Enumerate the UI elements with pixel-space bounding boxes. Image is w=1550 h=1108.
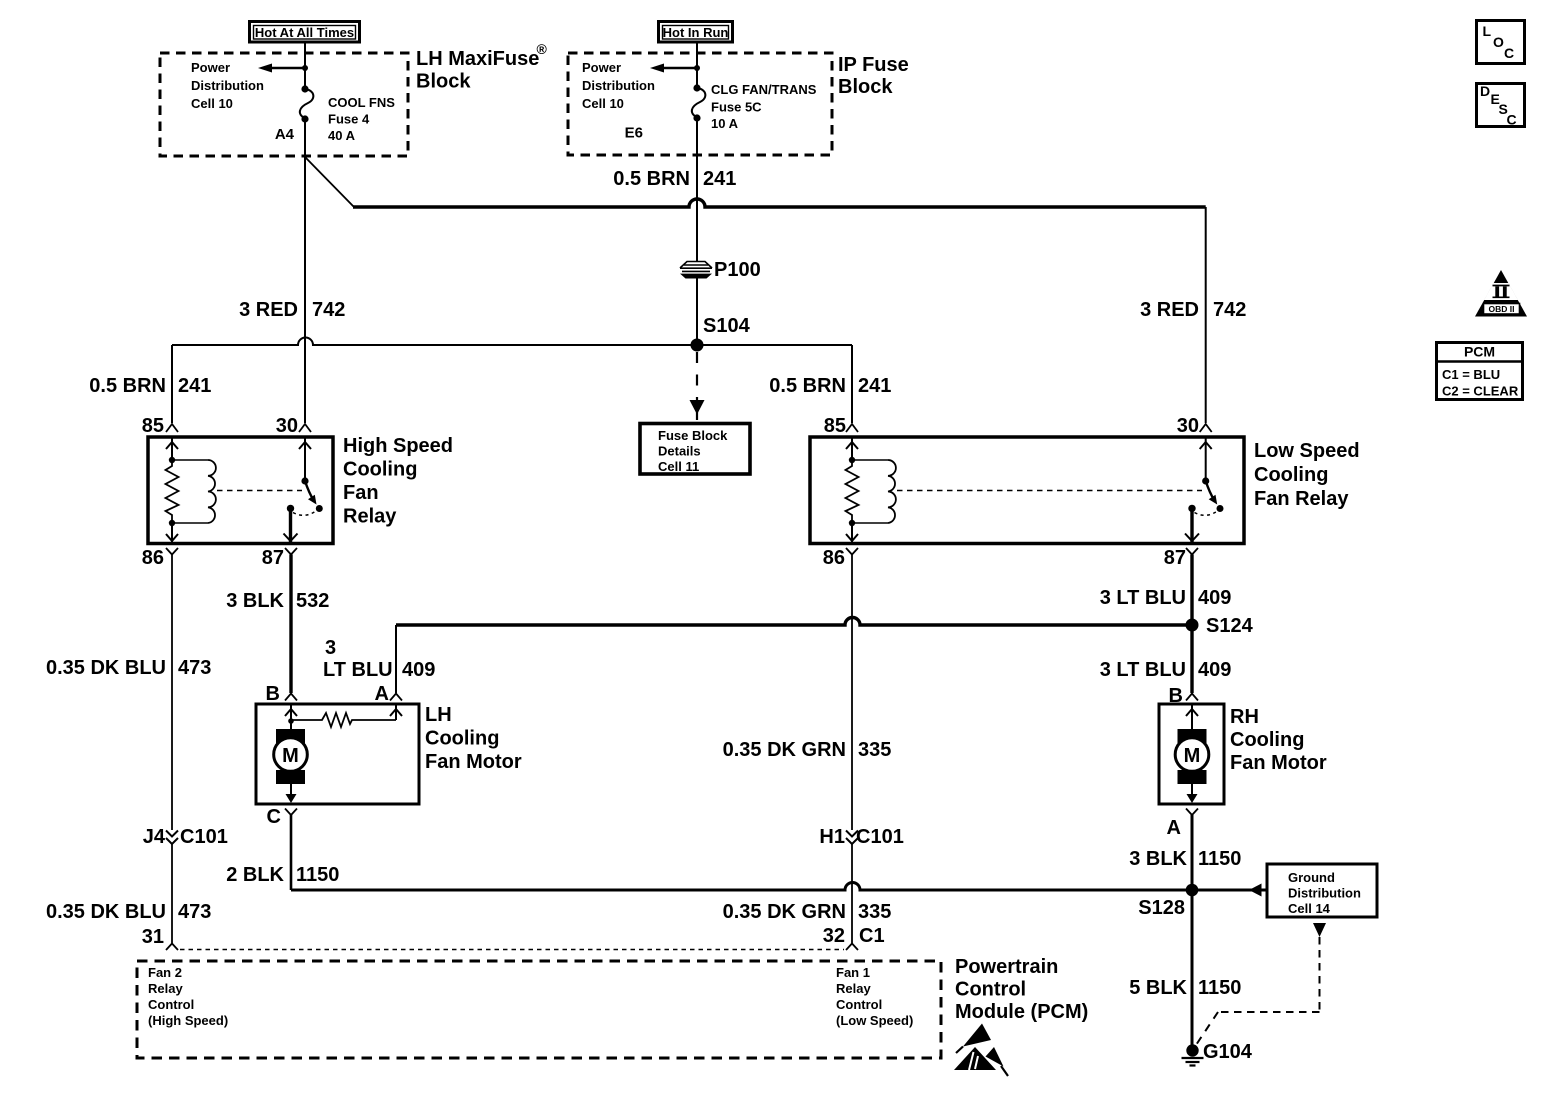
svg-text:86: 86 [823, 547, 845, 569]
svg-text:3 LT BLU: 3 LT BLU [1100, 587, 1186, 609]
svg-text:(Low Speed): (Low Speed) [836, 1013, 913, 1028]
svg-text:Fan 1: Fan 1 [836, 965, 870, 980]
svg-text:RH: RH [1230, 706, 1259, 728]
svg-text:LT BLU: LT BLU [323, 659, 393, 681]
svg-text:S128: S128 [1138, 897, 1185, 919]
wire from Hot At All Times into LH block [304, 42, 306, 88]
svg-text:Control: Control [836, 997, 882, 1012]
svg-text:C1: C1 [859, 925, 885, 947]
svg-text:Relay: Relay [343, 506, 397, 528]
LOC reference box [1477, 21, 1525, 64]
Ground Distribution Cell 14 reference box [1267, 864, 1377, 917]
svg-text:Cell 10: Cell 10 [582, 96, 624, 111]
RH fan motor M symbol [1175, 729, 1209, 784]
PCM connector C1 dashed face line [180, 949, 844, 951]
svg-text:Cooling: Cooling [343, 459, 417, 481]
svg-text:31: 31 [142, 926, 164, 948]
svg-text:Details: Details [658, 444, 701, 459]
horizontal 3 LT BLU 409 wire with hop over DK GRN wire [396, 618, 1192, 626]
svg-text:32: 32 [823, 925, 845, 947]
ground G104 symbol [1182, 1041, 1253, 1066]
wire label 0.35 DK BLU 473 (lower) [46, 901, 211, 923]
wire label 0.35 DK GRN 335 (upper) [723, 739, 892, 761]
svg-text:86: 86 [142, 547, 164, 569]
svg-text:30: 30 [276, 415, 298, 437]
HS relay resistor [166, 460, 179, 523]
pin 87 label and connector (HS relay) [262, 547, 297, 569]
svg-text:C1 = BLU: C1 = BLU [1442, 367, 1500, 382]
pin C label and connector (LH motor) [267, 806, 297, 828]
HS relay coil [172, 460, 216, 523]
wire label 3 LT BLU 409 (above S124) [1100, 587, 1232, 609]
svg-text:Fan Relay: Fan Relay [1254, 488, 1349, 510]
svg-text:Block: Block [416, 71, 471, 93]
LS relay resistor [846, 460, 859, 523]
svg-text:Cell 10: Cell 10 [191, 96, 233, 111]
svg-text:A4: A4 [275, 126, 295, 143]
wire label 0.5 BRN 241 [613, 168, 736, 190]
wire RH motor A down to S128 (3 BLK 1150) [1191, 815, 1194, 890]
svg-text:0.35 DK BLU: 0.35 DK BLU [46, 657, 166, 679]
Hot At All Times flag box [250, 22, 360, 43]
ESD sensitive device symbol [954, 1024, 1008, 1077]
svg-text:87: 87 [1164, 547, 1186, 569]
svg-text:O: O [1493, 34, 1504, 50]
svg-text:Power: Power [582, 60, 621, 75]
svg-text:Module (PCM): Module (PCM) [955, 1001, 1088, 1023]
svg-text:532: 532 [296, 590, 329, 612]
svg-text:CLG FAN/TRANS: CLG FAN/TRANS [711, 82, 817, 97]
splice S124 [1186, 615, 1254, 637]
svg-text:S124: S124 [1206, 615, 1254, 637]
svg-text:Relay: Relay [836, 981, 871, 996]
svg-text:Fan Motor: Fan Motor [425, 751, 522, 773]
HS relay switch pin 30 entry arrow and pivot [299, 437, 311, 485]
LS relay switch pin 30 entry arrow and pivot [1200, 437, 1212, 485]
svg-text:High Speed: High Speed [343, 435, 453, 457]
svg-text:D: D [1480, 83, 1490, 99]
svg-text:5 BLK: 5 BLK [1129, 977, 1187, 999]
HS relay coil pin 85 entry arrow [166, 437, 178, 463]
svg-text:C: C [1507, 112, 1517, 128]
wire label 3 BLK 532 [226, 590, 329, 612]
wire from Hot In Run into IP block [696, 42, 698, 87]
pin B label and connector (LH motor) [266, 683, 297, 705]
svg-text:C: C [267, 806, 281, 828]
svg-text:Power: Power [191, 60, 230, 75]
svg-text:3 LT BLU: 3 LT BLU [1100, 659, 1186, 681]
pin 31 label and connector (PCM) [142, 926, 178, 950]
svg-text:3 RED: 3 RED [1140, 299, 1199, 321]
svg-text:Control: Control [955, 979, 1026, 1001]
wire S128 to Ground Distribution box with arrow [1192, 884, 1267, 897]
svg-text:0.5 BRN: 0.5 BRN [613, 168, 690, 190]
LH motor box [256, 704, 419, 804]
svg-text:241: 241 [178, 375, 211, 397]
svg-text:Hot At All Times: Hot At All Times [255, 25, 354, 40]
svg-text:Cooling: Cooling [1230, 729, 1304, 751]
svg-text:409: 409 [1198, 587, 1231, 609]
svg-text:10 A: 10 A [711, 116, 739, 131]
relay K-LS box [810, 437, 1244, 544]
in-line connector C101 cavity J4 [143, 826, 228, 848]
svg-text:473: 473 [178, 657, 211, 679]
splice S104 [691, 315, 751, 352]
wire label 0.5 BRN 241 (right) [769, 375, 891, 397]
svg-text:(High Speed): (High Speed) [148, 1013, 228, 1028]
HS relay switch fixed contact to pin 87 [284, 505, 298, 543]
DESC reference box [1477, 83, 1525, 128]
RH motor exit arrow to pin A [1187, 781, 1198, 803]
svg-text:0.35 DK GRN: 0.35 DK GRN [723, 901, 846, 923]
relay K-HS label [343, 435, 453, 528]
svg-text:30: 30 [1177, 415, 1199, 437]
wire LH motor C down to ground run [290, 815, 293, 890]
wire H1 to PCM pin 32 lower segment [851, 844, 853, 943]
svg-text:Hot In Run: Hot In Run [663, 25, 729, 40]
HS relay contact travel dashed arc [293, 511, 317, 516]
svg-text:1150: 1150 [1198, 977, 1241, 999]
svg-text:1150: 1150 [1198, 848, 1241, 870]
svg-text:Cooling: Cooling [425, 728, 499, 750]
pin 86 label and connector (HS relay) [142, 547, 178, 569]
LS relay coil pin 85 entry arrow [846, 437, 858, 463]
svg-text:B: B [266, 683, 280, 705]
svg-text:J4: J4 [143, 826, 166, 848]
svg-text:40 A: 40 A [328, 128, 356, 143]
svg-text:H1: H1 [819, 826, 845, 848]
small text Power Distribution Cell 10 (IP block) [582, 60, 655, 111]
pin 85 label and connector (LS relay) [824, 415, 858, 437]
wire label 0.35 DK GRN 335 (lower) [723, 901, 892, 923]
svg-text:241: 241 [858, 375, 891, 397]
connector P100 grommet symbol [680, 262, 712, 279]
dashed reference arrow from S104 [690, 352, 705, 420]
svg-text:409: 409 [402, 659, 435, 681]
svg-text:87: 87 [262, 547, 284, 569]
svg-text:Cooling: Cooling [1254, 464, 1328, 486]
right vertical 3 RED wire down to LS relay pin 30 [1205, 207, 1207, 423]
wire E6 down through P100 to S104 [696, 118, 698, 261]
svg-text:Fan: Fan [343, 482, 379, 504]
LH motor B entry arrow [285, 704, 297, 724]
PCM connector legend box [1437, 343, 1523, 400]
svg-text:IP Fuse: IP Fuse [838, 54, 909, 76]
wire HS relay 86 down to PCM pin 31 (0.35 DK BLU 473) upper segment [171, 555, 173, 831]
label LH MaxiFuse (R) Block [416, 41, 548, 93]
svg-text:®: ® [537, 41, 548, 57]
svg-text:A: A [1167, 817, 1181, 839]
wire label 3 BLK 1150 [1129, 848, 1241, 870]
Fan 2 Relay Control signal label [148, 965, 228, 1028]
svg-text:C: C [1504, 45, 1514, 61]
svg-text:OBD II: OBD II [1489, 304, 1515, 314]
LS relay coil pin 86 exit arrow [846, 520, 858, 543]
LS relay coil [852, 460, 896, 523]
small text Power Distribution Cell 10 (LH block) [191, 60, 264, 111]
svg-text:PCM: PCM [1464, 344, 1495, 360]
svg-text:3 RED: 3 RED [239, 299, 298, 321]
wire label 3 RED 742 (right) [1140, 299, 1246, 321]
wire label 0.35 DK BLU 473 (upper) [46, 657, 211, 679]
svg-text:85: 85 [824, 415, 846, 437]
fuse value text [711, 82, 817, 131]
svg-text:0.5 BRN: 0.5 BRN [89, 375, 166, 397]
wire P100 to S104 [696, 277, 698, 345]
LH fan motor M symbol [274, 721, 308, 784]
LS relay switch fixed contact to pin 87 [1185, 505, 1199, 543]
arrow to Power Distribution (IP) [650, 64, 700, 73]
pin 85 label and connector (HS relay) [142, 415, 178, 437]
svg-text:Low Speed: Low Speed [1254, 440, 1360, 462]
RH motor B entry arrow [1186, 704, 1198, 737]
RH motor label [1230, 706, 1327, 774]
svg-text:3 BLK: 3 BLK [1129, 848, 1187, 870]
svg-text:Fuse 5C: Fuse 5C [711, 100, 762, 115]
svg-text:C2 = CLEAR: C2 = CLEAR [1442, 384, 1519, 399]
wire S128 down to G104 (5 BLK 1150) [1191, 890, 1194, 1045]
pin 86 label and connector (LS relay) [823, 547, 858, 569]
wire label 2 BLK 1150 [226, 864, 339, 886]
svg-text:Distribution: Distribution [582, 78, 655, 93]
LS relay armature dashed link [897, 490, 1202, 492]
svg-text:335: 335 [858, 901, 891, 923]
svg-text:C101: C101 [180, 826, 228, 848]
LS relay contact travel dashed arc [1195, 511, 1219, 516]
LH motor label [425, 704, 522, 773]
svg-text:473: 473 [178, 901, 211, 923]
in-line connector C101 cavity H1 [819, 826, 903, 848]
svg-text:Fuse Block: Fuse Block [658, 428, 728, 443]
wire LS relay 86 down to PCM pin 32 (0.35 DK GRN 335) upper segment [851, 555, 853, 831]
OBD II symbol [1475, 270, 1527, 317]
wire LS relay 87 down through S124 to RH motor B (3 LT BLU 409) [1190, 555, 1193, 694]
label IP Fuse Block [838, 54, 909, 98]
svg-text:G104: G104 [1203, 1041, 1253, 1063]
dashed reference path from Ground Distribution box to G104 [1196, 923, 1326, 1045]
pin 30 label and connector (LS relay) [1177, 415, 1212, 437]
IP Fuse Block dashed box [568, 53, 832, 155]
wire label 3 LT BLU 409 (vertical run at LH motor A) [323, 637, 435, 681]
wire A4 down to HS relay pin 30 [304, 119, 306, 423]
RH motor box [1159, 704, 1224, 804]
pin A label and connector (LH motor) [375, 683, 402, 705]
svg-text:Fan 2: Fan 2 [148, 965, 182, 980]
HS relay switch movable arm [305, 481, 323, 512]
svg-text:335: 335 [858, 739, 891, 761]
wire label 3 LT BLU 409 (below S124) [1100, 659, 1232, 681]
svg-text:85: 85 [142, 415, 164, 437]
svg-text:Fan Motor: Fan Motor [1230, 752, 1327, 774]
svg-text:A: A [375, 683, 389, 705]
HS relay coil pin 86 exit arrow [166, 520, 178, 543]
svg-text:COOL FNS: COOL FNS [328, 95, 395, 110]
pin A label and connector (RH motor) [1167, 809, 1198, 840]
svg-text:1150: 1150 [296, 864, 339, 886]
arrow to Power Distribution (LH) [258, 64, 308, 73]
svg-text:Block: Block [838, 76, 893, 98]
wire from 409 line down to LH motor A [395, 625, 397, 693]
svg-text:0.5 BRN: 0.5 BRN [769, 375, 846, 397]
svg-text:742: 742 [1213, 299, 1246, 321]
svg-text:Fuse 4: Fuse 4 [328, 112, 370, 127]
svg-text:3: 3 [325, 637, 336, 659]
splice S128 [1138, 884, 1198, 919]
svg-text:Ground: Ground [1288, 870, 1335, 885]
LH motor internal resistor branch to pin A [291, 704, 402, 727]
fuse value text [328, 95, 395, 143]
relay K-HS box [148, 437, 333, 544]
Fan 1 Relay Control signal label [836, 965, 913, 1028]
relay K-LS label [1254, 440, 1360, 510]
PCM label [955, 956, 1088, 1023]
svg-text:3 BLK: 3 BLK [226, 590, 284, 612]
pin 87 label and connector (LS relay) [1164, 547, 1198, 569]
svg-text:0.35 DK GRN: 0.35 DK GRN [723, 739, 846, 761]
svg-text:742: 742 [312, 299, 345, 321]
LH motor exit arrow to pin C [286, 781, 297, 803]
S104 horizontal 0.5 BRN wire with hop over 3 RED [172, 338, 852, 345]
svg-text:S104: S104 [703, 315, 751, 337]
svg-text:Distribution: Distribution [1288, 886, 1361, 901]
pin 32 label and connector C1 (PCM) [823, 925, 885, 950]
svg-text:Distribution: Distribution [191, 78, 264, 93]
diagonal wire from LH MaxiFuse A4 [306, 158, 354, 207]
left branch down to HS relay 85 [171, 345, 173, 423]
pin 30 label and connector (HS relay) [276, 415, 311, 437]
svg-text:Cell 11: Cell 11 [658, 459, 699, 474]
svg-text:LH: LH [425, 704, 452, 726]
long horizontal 3 RED wire with hop over vertical BRN wire [353, 199, 1206, 207]
fuse CLG FAN/TRANS Fuse 5C 10 A [692, 84, 706, 121]
svg-text:2 BLK: 2 BLK [226, 864, 284, 886]
svg-text:409: 409 [1198, 659, 1231, 681]
svg-text:M: M [1184, 745, 1201, 767]
wire HS relay 87 to LH motor B (3 BLK 532) [289, 555, 292, 694]
wire label 5 BLK 1150 [1129, 977, 1241, 999]
right branch down to LS relay 85 [851, 345, 853, 423]
fuse COOL FNS Fuse 4 40 A [300, 85, 314, 122]
wire J4 to PCM pin 31 lower segment [171, 844, 173, 943]
LH MaxiFuse Block dashed box [160, 53, 408, 156]
horizontal ground wire LH motor C to S128 with hop over DK GRN wire [291, 883, 1192, 890]
Hot In Run flag box [659, 22, 733, 43]
Fuse Block Details Cell 11 reference box [640, 424, 750, 475]
svg-text:Control: Control [148, 997, 194, 1012]
svg-text:C101: C101 [856, 826, 904, 848]
svg-text:Powertrain: Powertrain [955, 956, 1058, 978]
LS relay switch movable arm [1206, 481, 1224, 512]
svg-text:M: M [282, 745, 299, 767]
HS relay armature dashed link [217, 490, 302, 492]
svg-text:Relay: Relay [148, 981, 183, 996]
svg-text:0.35 DK BLU: 0.35 DK BLU [46, 901, 166, 923]
svg-text:LH MaxiFuse: LH MaxiFuse [416, 48, 539, 70]
pin B label and connector (RH motor) [1169, 685, 1198, 707]
PCM dashed box [137, 961, 941, 1058]
svg-text:P100: P100 [714, 259, 761, 281]
wire label 0.5 BRN 241 (left) [89, 375, 211, 397]
svg-text:241: 241 [703, 168, 736, 190]
svg-text:L: L [1483, 23, 1492, 39]
svg-text:E6: E6 [625, 125, 643, 142]
wire label 3 RED 742 (left) [239, 299, 345, 321]
svg-text:Cell 14: Cell 14 [1288, 901, 1331, 916]
